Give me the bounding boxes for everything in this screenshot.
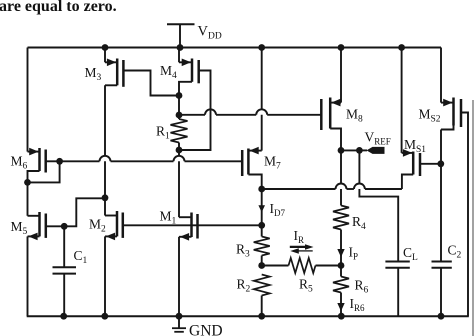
wire VREF node link bbox=[341, 149, 359, 151]
wire R6 top lead bbox=[340, 266, 342, 277]
capacitor CL bbox=[385, 245, 418, 316]
node F R3 bottom / R5 / R2 bbox=[258, 262, 265, 269]
wire M7 drain to MS1 drain bbox=[262, 184, 402, 190]
transistor M7 bbox=[242, 147, 281, 189]
transistor M8 bbox=[321, 98, 363, 151]
junction GND tap bbox=[176, 313, 183, 320]
capacitor C1 bbox=[53, 226, 88, 316]
wire R4 to R5 node bbox=[340, 230, 342, 266]
transistor M5 bbox=[11, 212, 65, 240]
wire R2 to ground rail bbox=[261, 296, 263, 317]
junction VDD-MS1 bbox=[398, 44, 405, 51]
wire M2 source to ground rail bbox=[104, 236, 106, 316]
power VDD symbol bbox=[167, 24, 222, 48]
node E ID7 / R3 top / M1 gate bbox=[258, 222, 265, 229]
wire ground bottom rail bbox=[27, 315, 469, 317]
resistor R4 bbox=[333, 206, 366, 233]
wire M2 gate to M1 gate to ID7 node bbox=[123, 224, 262, 226]
current arrow ID7 bbox=[258, 201, 285, 218]
junction M6 gate bbox=[56, 158, 63, 165]
wire M6 gate to M7 gate bbox=[60, 156, 243, 162]
wire R3 to R2 node bbox=[261, 256, 263, 266]
wire VDD to MS1 source bbox=[401, 48, 403, 153]
wire VREF node to CL bbox=[359, 150, 398, 261]
wire VDD to M4 source bbox=[178, 48, 180, 63]
junction M6 drain bbox=[24, 179, 31, 186]
wire MS2 drain to C2 bbox=[440, 130, 442, 262]
node D M7 drain bbox=[258, 186, 265, 193]
resistor R5 bbox=[289, 258, 316, 295]
wire M7 drain to R3 node bbox=[261, 189, 263, 237]
transistor MS2 bbox=[419, 98, 469, 317]
wire left rail VDD to M6 source bbox=[27, 48, 29, 152]
svg-text:are equal to zero.: are equal to zero. bbox=[0, 0, 117, 15]
wire R5 to R4 node bbox=[316, 265, 342, 267]
node I R4 / R5 / R6 bbox=[338, 262, 345, 269]
wire M5 source to ground rail bbox=[27, 236, 29, 316]
wire R2 node to R5 bbox=[262, 265, 289, 267]
wire M3 drain to M2 drain bbox=[104, 85, 106, 215]
junction VDD-M7 bbox=[258, 44, 265, 51]
junction VDD-M4 bbox=[177, 44, 184, 51]
junction C1-ground bbox=[60, 313, 67, 320]
wire R6 to ground rail bbox=[340, 293, 342, 317]
junction R2-ground bbox=[258, 313, 265, 320]
svg-text:GND: GND bbox=[189, 323, 223, 336]
junction VDD-M8 bbox=[338, 44, 345, 51]
wire VDD to M7 source bbox=[261, 48, 263, 151]
junction M2-ground bbox=[101, 313, 108, 320]
current arrow IP bbox=[337, 245, 358, 262]
resistor R1 bbox=[156, 119, 188, 143]
wire R1 bottom to M1 drain bbox=[178, 143, 180, 218]
transistor MS1 bbox=[402, 137, 441, 189]
resistor R2 bbox=[237, 275, 270, 296]
wire M1 source to ground rail bbox=[178, 237, 180, 316]
current arrow IR6 bbox=[337, 296, 365, 313]
transistor M2 bbox=[89, 211, 123, 240]
caption text bbox=[0, 0, 117, 15]
wire M5 gate to M2 drain node bbox=[64, 198, 105, 226]
wire VDD to MS2 source bbox=[440, 48, 442, 103]
junction M5 gate / C1 bbox=[61, 223, 68, 230]
wire M6 gate to M6 drain node bbox=[28, 161, 60, 182]
wire M6 drain node to M5 source bbox=[27, 182, 29, 215]
transistor M6 bbox=[11, 148, 60, 183]
junction C2-ground bbox=[438, 313, 445, 320]
ground bbox=[172, 316, 223, 336]
resistor R6 bbox=[333, 277, 369, 296]
node C R1 bottom / M4 gate bbox=[176, 147, 183, 154]
junction M2 drain / M5 gate link bbox=[102, 194, 109, 201]
junction VDD-M3 bbox=[102, 44, 109, 51]
junction MS1 gate / MS2 drain bbox=[437, 160, 444, 167]
resistor R3 bbox=[236, 237, 270, 260]
wire VREF node to R4 bbox=[340, 150, 342, 205]
node B M8 gate tap bbox=[176, 112, 183, 119]
wire VDD top rail bbox=[28, 47, 442, 49]
current arrow IR (double) bbox=[290, 228, 314, 254]
node VREF flag bbox=[359, 130, 390, 154]
wire VDD to M3 source bbox=[104, 48, 106, 63]
wire C2 to ground rail bbox=[440, 268, 442, 316]
transistor M1 bbox=[160, 209, 198, 241]
capacitor C2 bbox=[432, 243, 462, 268]
wire M4 drain node to R1 bbox=[178, 96, 180, 120]
node G VREF / R4 bbox=[338, 147, 345, 154]
node A M4 drain / M3 gate bbox=[176, 92, 183, 99]
wire VDD to M8 source bbox=[340, 48, 342, 103]
node H VREF flag tap bbox=[356, 147, 363, 154]
transistor M4 bbox=[160, 59, 211, 151]
junction R6-ground bbox=[338, 313, 345, 320]
wire M4 drain to M8 gate bbox=[179, 109, 321, 115]
transistor M3 bbox=[85, 59, 180, 96]
